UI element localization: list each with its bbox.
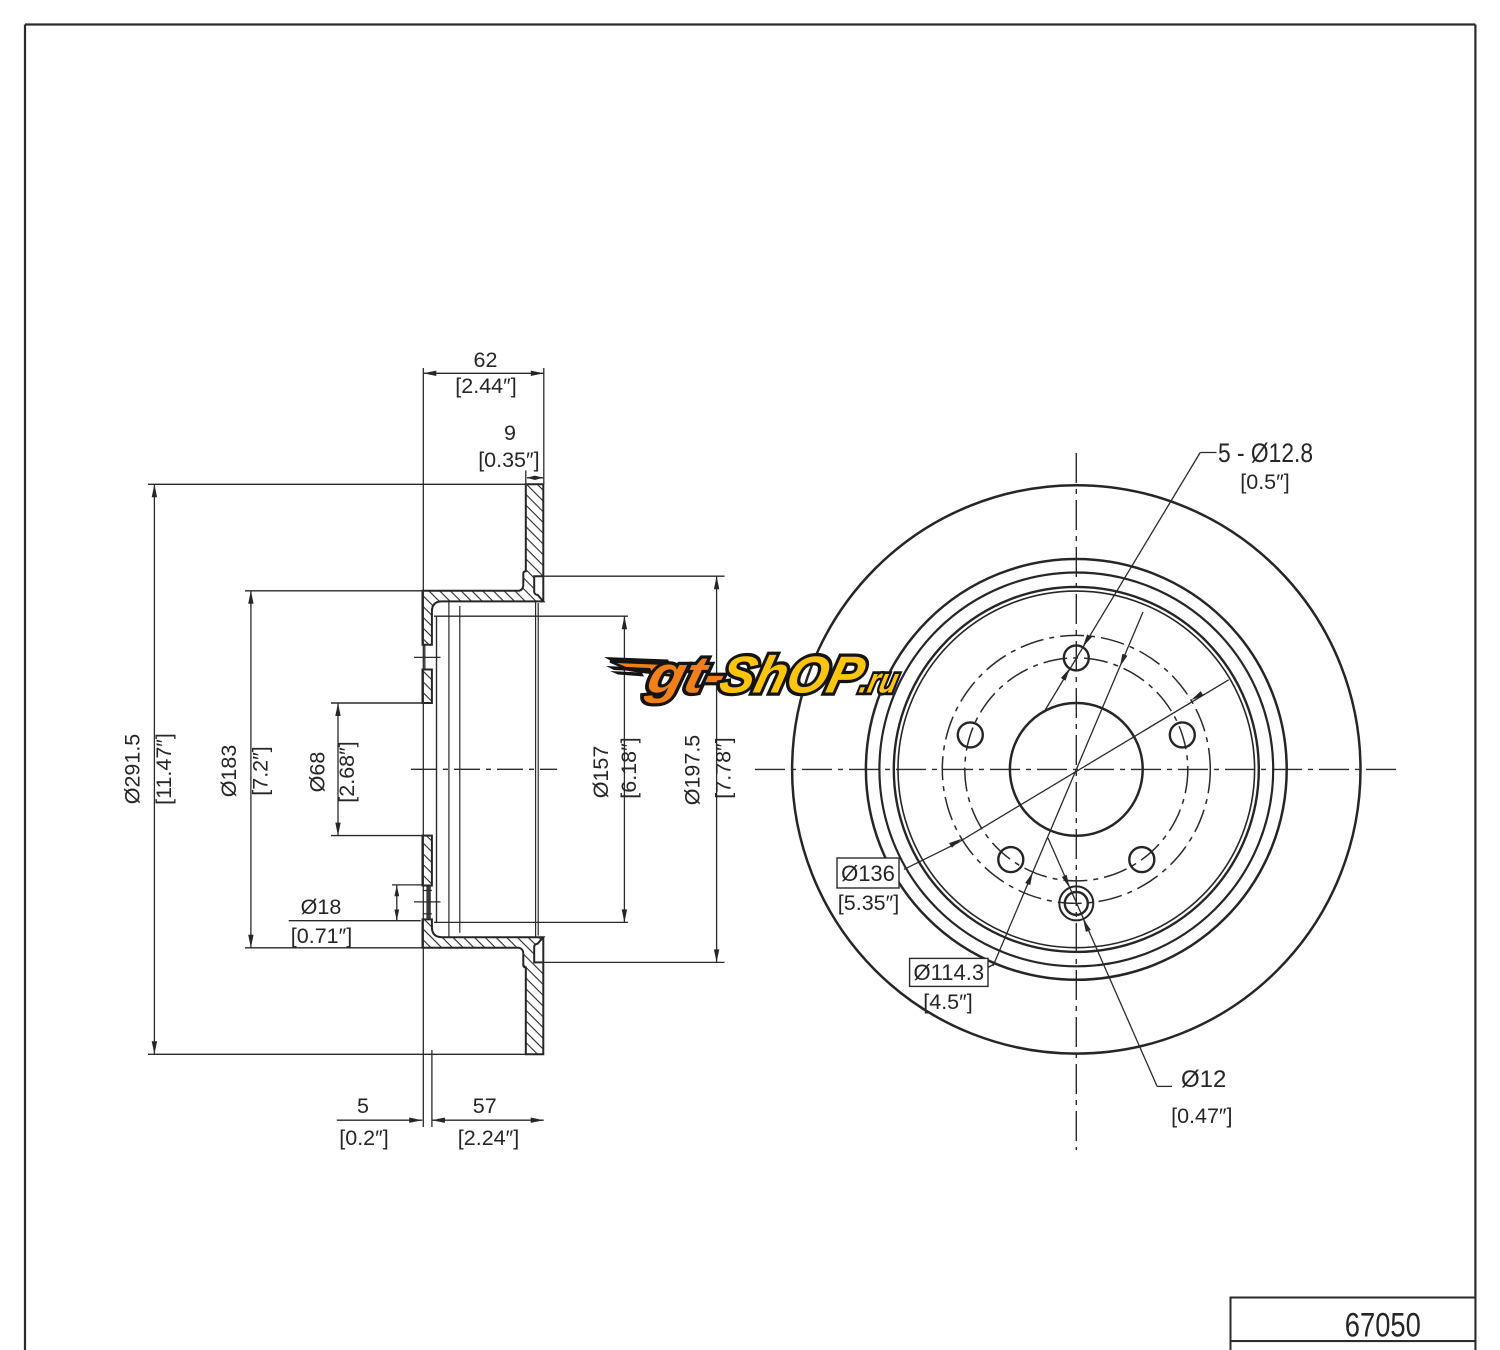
- dim 62 top: [423, 368, 544, 1127]
- svg-text:[5.35″]: [5.35″]: [838, 891, 899, 915]
- diameter line Ø136: [904, 680, 1229, 870]
- bore edge lines (Ø68) with extensions: [331, 702, 432, 704]
- svg-text:9: 9: [504, 421, 516, 445]
- hat step circle Ø197.5: [879, 573, 1273, 967]
- dim Ø197.5: [536, 576, 725, 962]
- hatched solid: plate+hat wall, bottom half: [423, 919, 544, 1054]
- horizontal centerline: [755, 768, 1399, 770]
- bolt hole centerline tick: [414, 656, 441, 658]
- svg-text:Ø12: Ø12: [1181, 1066, 1226, 1093]
- svg-text:[7.78″]: [7.78″]: [711, 737, 735, 798]
- svg-text:Ø291.5: Ø291.5: [121, 734, 145, 805]
- bolt hole lower-right: [1129, 847, 1154, 872]
- svg-text:[2.68″]: [2.68″]: [335, 741, 359, 802]
- bolt hole in flange (top): far wall line: [424, 645, 426, 670]
- svg-text:[7.2″]: [7.2″]: [248, 746, 272, 795]
- leader line Ø12: [1157, 1085, 1172, 1087]
- svg-text:[0.5″]: [0.5″]: [1240, 470, 1289, 494]
- cavity edge: fillet tangent circle: [459, 606, 461, 933]
- dim 5 bottom: [337, 1050, 432, 1127]
- flange segment between bolt hole and bore, top: [423, 670, 432, 704]
- speed wing: [604, 657, 671, 665]
- cavity edge: Ø157 pad face: [436, 616, 438, 922]
- label box Ø136: [837, 858, 899, 888]
- svg-text:[11.47″]: [11.47″]: [152, 733, 176, 805]
- bolt circle Ø114.3 dash-dot: [965, 658, 1188, 881]
- bolt hole upper-right: [1170, 722, 1195, 747]
- drum circle Ø183: [894, 587, 1259, 952]
- dim 57 bottom: [432, 1119, 544, 1121]
- svg-text:[4.5″]: [4.5″]: [923, 990, 972, 1014]
- cavity edge: flange fillet circle: [448, 602, 450, 938]
- friction band inner edge circle: [866, 559, 1287, 980]
- dim Ø68: [337, 703, 339, 836]
- svg-text:Ø197.5: Ø197.5: [680, 735, 704, 806]
- svg-text:[2.44″]: [2.44″]: [455, 374, 516, 398]
- dim Ø291.5: [148, 484, 527, 1054]
- cavity edge: groove circle A: [535, 602, 537, 938]
- svg-text:[0.47″]: [0.47″]: [1171, 1104, 1232, 1128]
- cavity edge: groove circle B: [537, 603, 539, 936]
- svg-text:Ø136: Ø136: [841, 861, 895, 886]
- leader line 5-Ø12.8: [1200, 452, 1216, 454]
- svg-text:[0.35″]: [0.35″]: [478, 448, 539, 472]
- center bore Ø68: [1010, 703, 1143, 836]
- svg-text:[6.18″]: [6.18″]: [617, 737, 641, 798]
- svg-text:Ø18: Ø18: [301, 895, 342, 919]
- bolt hole upper-left: [958, 722, 983, 747]
- svg-text:ShOP: ShOP: [714, 646, 871, 704]
- svg-text:[0.71″]: [0.71″]: [291, 924, 352, 948]
- set screw hole Ø12 with boss Ø18: [1059, 886, 1093, 920]
- svg-text:Ø68: Ø68: [306, 752, 330, 793]
- svg-text:5: 5: [357, 1094, 369, 1118]
- svg-text:Ø183: Ø183: [217, 745, 241, 798]
- bolt hole top: [1064, 645, 1089, 670]
- orange swoosh: [610, 662, 674, 677]
- outer circle Ø291.5: [792, 485, 1360, 1053]
- screw hole centerline tick: [414, 901, 441, 903]
- circle Ø136 dash-dot: [942, 635, 1210, 903]
- svg-text:67050: 67050: [1345, 1307, 1421, 1345]
- diameter line Ø114.3: [987, 963, 996, 968]
- section axis centerline: [411, 768, 557, 770]
- dim 9 top: [526, 471, 544, 488]
- label box Ø114.3: [910, 958, 988, 986]
- drum inner circle: [898, 591, 1255, 948]
- svg-text:62: 62: [474, 348, 498, 372]
- hatched solid: plate+hat wall, top half: [423, 484, 544, 645]
- flange segment between bore and screw hole, bottom: [423, 836, 432, 886]
- dim Ø18: [289, 885, 423, 921]
- speed streak 3: [610, 671, 644, 677]
- plate inner face edge through groove, top: [542, 576, 544, 601]
- dim Ø183: [245, 591, 423, 948]
- plate inner face edge through groove, bottom: [542, 937, 544, 962]
- bolt hole lower-left: [998, 847, 1023, 872]
- set screw hole (bottom): thread strip: [426, 886, 430, 918]
- svg-text:[2.24″]: [2.24″]: [458, 1126, 519, 1150]
- svg-text:[0.2″]: [0.2″]: [339, 1126, 388, 1150]
- svg-text:5 - Ø12.8: 5 - Ø12.8: [1218, 438, 1313, 468]
- svg-text:Ø157: Ø157: [589, 746, 613, 799]
- svg-text:57: 57: [473, 1094, 497, 1118]
- svg-text:Ø114.3: Ø114.3: [914, 960, 985, 985]
- speed streak 2: [606, 666, 652, 672]
- vertical centerline: [1075, 453, 1077, 1150]
- dim Ø157: [434, 616, 628, 922]
